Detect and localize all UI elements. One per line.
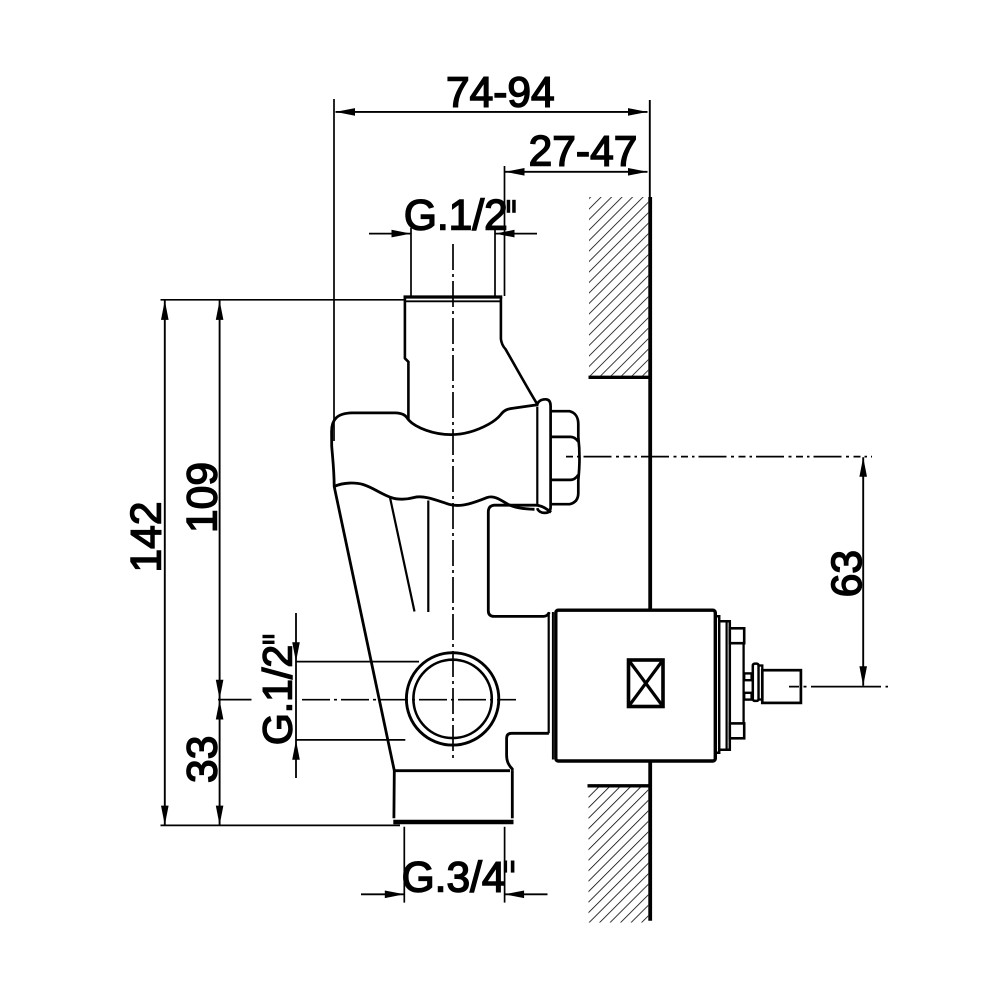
svg-text:33: 33: [180, 736, 227, 783]
svg-text:G.1/2: G.1/2: [254, 645, 300, 745]
svg-text:27-47: 27-47: [529, 129, 638, 176]
svg-text:G.3/4: G.3/4: [402, 855, 506, 902]
svg-text:109: 109: [180, 462, 227, 533]
svg-text:63: 63: [824, 550, 871, 597]
svg-text:142: 142: [123, 502, 170, 573]
svg-text:G.1/2: G.1/2: [404, 192, 508, 239]
svg-text:74-94: 74-94: [446, 70, 555, 117]
